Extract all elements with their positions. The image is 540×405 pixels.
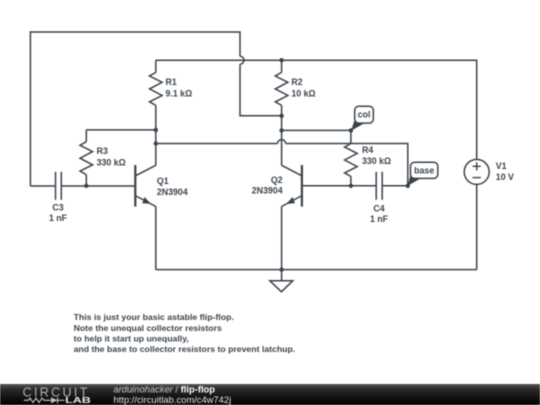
node R2 top on rail xyxy=(279,58,283,62)
svg-text:9.1 kΩ: 9.1 kΩ xyxy=(166,88,193,98)
svg-text:10 kΩ: 10 kΩ xyxy=(291,88,315,98)
wire: left rail top loop (C3 left to Q2 collector node) xyxy=(30,32,240,186)
svg-text:C3: C3 xyxy=(52,203,63,213)
wire: x=240 vertical lower part to R2 bottom node xyxy=(240,64,282,116)
svg-text:Note the unequal collector res: Note the unequal collector resistors xyxy=(74,323,222,333)
svg-text:Q2: Q2 xyxy=(271,175,283,185)
node col tag attach xyxy=(349,128,353,132)
svg-text:Q1: Q1 xyxy=(157,176,169,186)
svg-text:2N3904: 2N3904 xyxy=(252,186,283,196)
wire: Q1 collector cross wire y=143.5 left part xyxy=(156,143,278,145)
svg-text:10 V: 10 V xyxy=(496,172,514,182)
svg-text:R4: R4 xyxy=(362,145,373,155)
transistor Q2 2N3904 xyxy=(282,165,302,270)
wire hop: x=240 vertical hops over top rail xyxy=(240,56,244,64)
resistor R2 10k xyxy=(275,60,288,165)
svg-text:and the base to collector resi: and the base to collector resistors to p… xyxy=(74,344,296,354)
svg-text:C4: C4 xyxy=(373,203,384,213)
svg-text:2N3904: 2N3904 xyxy=(157,187,188,197)
node R3-top / Q1 collector xyxy=(154,128,158,132)
svg-text:base: base xyxy=(414,166,434,176)
svg-text:330 kΩ: 330 kΩ xyxy=(362,156,391,166)
svg-text:V1: V1 xyxy=(496,161,507,171)
node R4 bottom on Q2 base wire xyxy=(349,184,353,188)
Q1 emitter arrow xyxy=(142,197,151,204)
wire: col node from Q2 collector xyxy=(282,130,351,143)
node label base xyxy=(408,162,438,186)
svg-text:R1: R1 xyxy=(166,77,177,87)
svg-text:330 kΩ: 330 kΩ xyxy=(97,157,126,167)
node ground junction xyxy=(279,267,283,271)
svg-text:to help it start up unequally,: to help it start up unequally, xyxy=(74,333,189,343)
svg-text:col: col xyxy=(358,110,371,120)
node label col xyxy=(351,106,373,131)
transistor Q1 2N3904 xyxy=(135,165,156,270)
voltage source V1 10V xyxy=(464,159,489,184)
wire: bottom ground rail xyxy=(156,269,477,271)
Q2 emitter arrow xyxy=(286,197,295,204)
wire: top V+ rail R1 top to V1 xyxy=(156,60,477,159)
node R2 bottom / left loop xyxy=(279,114,283,118)
node base tag attach / C4 right xyxy=(406,184,410,188)
resistor R1 9.1k xyxy=(150,60,163,165)
svg-text:R3: R3 xyxy=(97,146,108,156)
CircuitLab logo resistor-diode doodle xyxy=(24,397,65,403)
svg-text:This is just your basic astabl: This is just your basic astable flip-flo… xyxy=(74,312,234,322)
node Q2 collector / col wire xyxy=(279,128,283,132)
node Q1 collector cross-wire xyxy=(154,141,158,145)
wire hop: y=143.5 wire hops over Q2 collector line xyxy=(278,140,286,144)
svg-text:http://circuitlab.com/c4w742j: http://circuitlab.com/c4w742j xyxy=(113,394,231,405)
capacitor C4 1nF xyxy=(302,172,408,200)
resistor R4 330k xyxy=(345,144,358,186)
svg-text:1 nF: 1 nF xyxy=(370,214,389,224)
svg-text:LAB: LAB xyxy=(65,396,91,405)
capacitor C3 1nF xyxy=(30,172,135,200)
svg-text:1 nF: 1 nF xyxy=(49,213,68,223)
svg-text:R2: R2 xyxy=(291,77,302,87)
resistor R3 330k xyxy=(80,130,156,186)
wire: V1 bottom lead xyxy=(476,184,478,269)
svg-text:arduinohacker / flip-flop: arduinohacker / flip-flop xyxy=(113,383,215,394)
node R3 bottom on Q1 base wire xyxy=(84,184,88,188)
footer bar xyxy=(0,384,540,405)
wire: y=143.5 wire right part to base-tag column xyxy=(286,144,408,186)
ground xyxy=(281,270,283,281)
